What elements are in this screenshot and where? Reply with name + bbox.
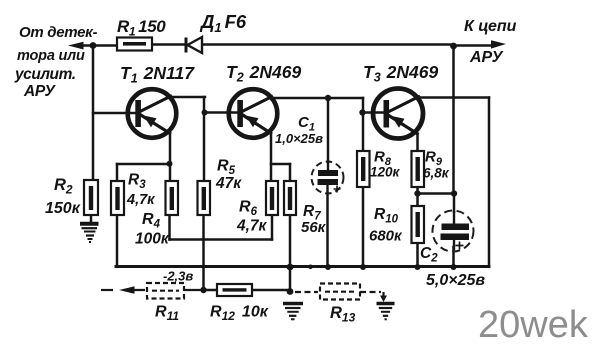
svg-text:К цепи: К цепи	[464, 18, 517, 35]
svg-text:АРУ: АРУ	[469, 49, 504, 66]
svg-text:6,8к: 6,8к	[423, 166, 450, 181]
svg-text:1,0×25в: 1,0×25в	[275, 131, 323, 146]
svg-text:20wek: 20wek	[478, 304, 589, 346]
svg-text:100к: 100к	[135, 231, 170, 248]
svg-text:120к: 120к	[370, 165, 401, 180]
svg-text:680к: 680к	[369, 228, 403, 245]
svg-text:4,7к: 4,7к	[236, 218, 268, 235]
svg-text:усилит.: усилит.	[14, 66, 76, 83]
svg-text:тора или: тора или	[17, 48, 85, 64]
svg-text:АРУ: АРУ	[23, 83, 56, 100]
svg-text:47к: 47к	[215, 175, 242, 192]
svg-text:4,7к: 4,7к	[126, 192, 155, 208]
svg-text:5,0×25в: 5,0×25в	[426, 272, 485, 289]
svg-text:56к: 56к	[301, 219, 327, 236]
svg-text:R1150: R1150	[117, 17, 166, 39]
svg-text:150к: 150к	[45, 200, 81, 217]
svg-text:От детек-: От детек-	[19, 24, 97, 41]
svg-text:-2,3в: -2,3в	[163, 269, 193, 284]
